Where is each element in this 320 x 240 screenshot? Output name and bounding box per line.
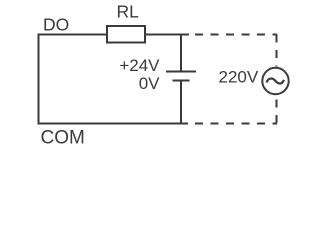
wire: dashed right vertical upper xyxy=(276,35,278,67)
AC source G1 circle xyxy=(262,68,288,94)
AC source G1 sine symbol xyxy=(267,79,285,84)
svg-text:DO: DO xyxy=(43,15,69,35)
svg-text:RL: RL xyxy=(117,2,140,22)
battery V1 negative plate xyxy=(173,80,190,82)
battery V1 positive plate xyxy=(166,71,196,73)
wire: dashed top to AC source xyxy=(195,34,277,36)
wire: top from DO corner to resistor xyxy=(38,34,107,36)
wire: left vertical DO-COM xyxy=(38,34,40,125)
battery V1 bottom lead xyxy=(180,81,182,124)
wire: resistor right to battery junction xyxy=(146,34,190,36)
svg-text:220V: 220V xyxy=(219,68,259,87)
svg-text:COM: COM xyxy=(41,128,85,149)
wire: dashed bottom from battery to AC source xyxy=(195,123,277,125)
resistor RL xyxy=(107,26,145,43)
wire: dashed right vertical lower xyxy=(276,100,278,125)
svg-text:+24V: +24V xyxy=(119,56,160,75)
svg-text:0V: 0V xyxy=(139,74,160,93)
battery V1 top lead xyxy=(180,35,182,72)
wire: bottom COM xyxy=(38,123,189,125)
